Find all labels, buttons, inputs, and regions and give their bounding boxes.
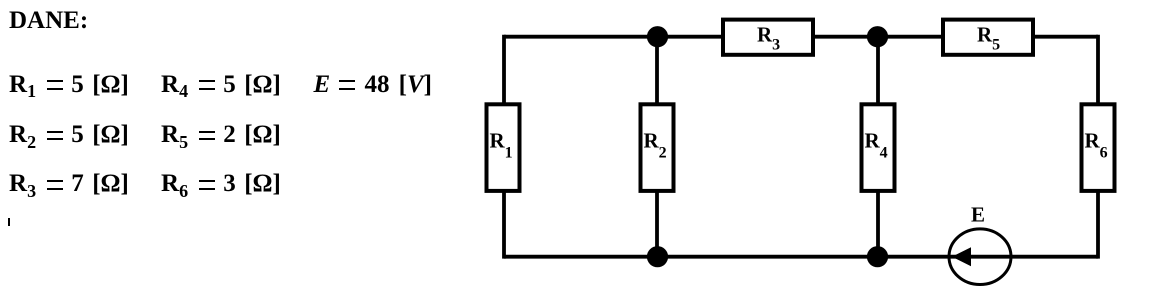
- svg-text:E: E: [971, 203, 985, 227]
